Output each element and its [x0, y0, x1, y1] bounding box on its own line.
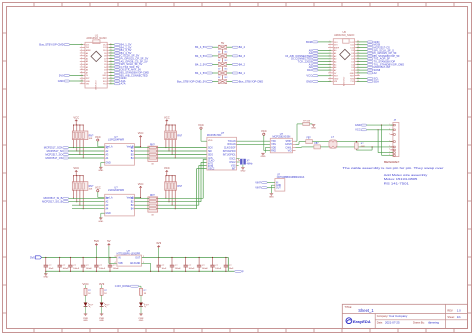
svg-text:OUT: OUT: [135, 258, 140, 260]
svg-text:INT0: INT0: [208, 166, 214, 168]
svg-text:D4: D4: [104, 67, 106, 69]
svg-text:2: 2: [143, 256, 144, 258]
svg-text:B4_2: B4_2: [239, 62, 246, 66]
svg-text:D8: D8: [104, 56, 106, 58]
svg-text:RN?: RN?: [89, 135, 94, 137]
svg-text:5V: 5V: [107, 239, 110, 243]
svg-text:RXD: RXD: [271, 150, 276, 152]
svg-text:Drawn By:: Drawn By:: [413, 322, 425, 325]
svg-text:D2: D2: [351, 70, 353, 72]
svg-text:100nF: 100nF: [202, 268, 209, 270]
svg-text:MCP2517_SI_B: MCP2517_SI_B: [43, 196, 62, 200]
svg-text:MCP2517_SCK: MCP2517_SCK: [44, 146, 63, 150]
svg-text:D13: D13: [86, 45, 89, 47]
svg-text:GND: GND: [102, 75, 107, 77]
svg-text:OSC2: OSC2: [208, 169, 215, 171]
svg-text:3V3: 3V3: [86, 47, 89, 49]
svg-text:GND: GND: [106, 213, 111, 215]
svg-text:VSS: VSS: [271, 144, 276, 146]
svg-text:VIN?: VIN?: [255, 180, 261, 184]
svg-text:D12: D12: [350, 42, 353, 44]
svg-text:PWR: PWR: [99, 318, 104, 320]
svg-text:EasyEDA: EasyEDA: [353, 319, 371, 324]
svg-text:D11: D11: [351, 45, 354, 47]
svg-text:Bus_STBY/OP-CMD_5V: Bus_STBY/OP-CMD_5V: [177, 80, 206, 84]
svg-text:VCC: VCC: [306, 74, 312, 78]
svg-text:Date:: Date:: [377, 322, 383, 325]
svg-text:INT1: INT1: [208, 163, 214, 165]
svg-text:Bus_STBY/OP-CMD: Bus_STBY/OP-CMD: [39, 43, 63, 47]
svg-text:D10: D10: [103, 50, 106, 52]
svg-text:VCC: VCC: [73, 166, 79, 170]
svg-text:5V0: 5V0: [30, 255, 35, 259]
svg-text:GND: GND: [306, 79, 312, 83]
svg-text:RN?: RN?: [177, 135, 182, 137]
svg-text:VCC: VCC: [261, 129, 267, 133]
svg-text:A2: A2: [374, 71, 378, 75]
svg-text:GND: GND: [106, 163, 111, 165]
svg-text:T.CK_22003: T.CK_22003: [297, 60, 312, 64]
svg-text:VDD: VDD: [271, 147, 276, 149]
svg-text:VDD: VDD: [208, 140, 213, 142]
svg-text:3V3: 3V3: [334, 45, 337, 47]
svg-text:OUT: OUT: [276, 188, 281, 190]
svg-text:The cable assembly is not pin: The cable assembly is not pin for pin. T…: [343, 166, 444, 170]
svg-text:10K: 10K: [89, 189, 93, 191]
svg-text:SDI: SDI: [208, 151, 212, 153]
svg-text:GND: GND: [43, 277, 48, 279]
svg-text:ARDUINO_NANO: ARDUINO_NANO: [86, 37, 106, 40]
svg-text:GND: GND: [99, 320, 104, 322]
svg-text:D8: D8: [351, 53, 353, 55]
svg-text:B4_4_5V: B4_4_5V: [195, 45, 206, 49]
svg-text:B4_2_5V: B4_2_5V: [195, 62, 206, 66]
svg-text:D7: D7: [351, 56, 353, 58]
svg-text:100nF: 100nF: [189, 268, 196, 270]
svg-text:BCM: BCM: [306, 40, 312, 44]
svg-text:100nF: 100nF: [63, 268, 70, 270]
svg-text:3V3: 3V3: [156, 241, 161, 245]
svg-text:SCK: SCK: [208, 148, 213, 150]
svg-text:BEWARE!!: BEWARE!!: [384, 160, 400, 164]
svg-text:60R: 60R: [361, 146, 365, 148]
svg-text:1.0: 1.0: [457, 309, 461, 313]
svg-text:HT7533BPU-LEN2PR: HT7533BPU-LEN2PR: [117, 252, 141, 255]
svg-text:100nF: 100nF: [86, 268, 93, 270]
svg-text:VCC: VCC: [164, 166, 170, 170]
svg-text:D13: D13: [334, 42, 337, 44]
svg-text:Add Molex wire assembly: Add Molex wire assembly: [384, 173, 428, 177]
svg-text:100nF: 100nF: [215, 268, 222, 270]
svg-text:B4_1_5V: B4_1_5V: [195, 71, 206, 75]
svg-text:GND: GND: [240, 170, 245, 172]
svg-text:3: 3: [114, 256, 115, 258]
svg-text:VCC: VCC: [138, 131, 144, 135]
svg-text:D7: D7: [104, 59, 106, 61]
svg-text:D11: D11: [103, 47, 106, 49]
svg-text:B4_3: B4_3: [239, 54, 246, 58]
svg-text:D5: D5: [351, 62, 353, 64]
svg-text:D10: D10: [350, 47, 353, 49]
svg-text:INT0/GPIO0: INT0/GPIO0: [223, 151, 237, 153]
svg-text:VCC: VCC: [138, 182, 144, 186]
svg-text:VCC: VCC: [73, 115, 79, 119]
svg-text:GND: GND: [261, 156, 266, 158]
svg-text:LSF0204PWR: LSF0204PWR: [108, 139, 124, 142]
svg-text:D12: D12: [103, 45, 106, 47]
svg-text:GND: GND: [98, 170, 103, 172]
svg-text:2021-07-25: 2021-07-25: [385, 321, 400, 325]
svg-text:RX0: RX0: [350, 78, 354, 80]
svg-text:Your Company: Your Company: [389, 314, 408, 318]
svg-text:VCC: VCC: [164, 115, 170, 119]
svg-text:OSC1: OSC1: [229, 159, 236, 161]
svg-text:ARDUINO_NANO: ARDUINO_NANO: [334, 34, 354, 37]
svg-text:MCP2562-E/SN: MCP2562-E/SN: [273, 136, 291, 139]
svg-text:Bus_STBY/OP-CMD: Bus_STBY/OP-CMD: [239, 80, 263, 84]
svg-text:D4: D4: [351, 64, 353, 66]
svg-text:5V: 5V: [221, 42, 224, 45]
svg-text:100nF: 100nF: [99, 268, 106, 270]
svg-text:VCC: VCC: [198, 123, 204, 127]
svg-text:A7A: A7A: [121, 82, 126, 86]
svg-text:INT1/GPIO1: INT1/GPIO1: [223, 154, 237, 156]
svg-text:GND: GND: [139, 320, 144, 322]
svg-text:PWR: PWR: [83, 318, 88, 320]
svg-text:100nF: 100nF: [175, 268, 182, 270]
svg-text:GND: GND: [311, 128, 316, 130]
svg-text:TITLE:: TITLE:: [345, 306, 353, 309]
svg-text:CLKO/SOF: CLKO/SOF: [224, 148, 236, 150]
svg-text:GND: GND: [58, 79, 64, 83]
svg-text:MCP2517_SO: MCP2517_SO: [45, 152, 62, 156]
svg-text:100nF: 100nF: [73, 268, 80, 270]
svg-text:D10: D10: [307, 68, 312, 72]
svg-text:D6: D6: [351, 59, 353, 61]
svg-text:PWR: PWR: [139, 318, 144, 320]
svg-text:TX_STANDBY/OP: TX_STANDBY/OP: [374, 60, 396, 64]
svg-text:10uF: 10uF: [229, 268, 234, 270]
svg-text:Molex 15134-0805: Molex 15134-0805: [384, 177, 418, 181]
svg-text:GND: GND: [276, 185, 281, 187]
svg-text:VIN?: VIN?: [255, 186, 261, 190]
svg-text:nCS: nCS: [208, 158, 213, 160]
svg-text:R? 10K: R? 10K: [303, 120, 311, 122]
svg-text:tfjenning: tfjenning: [428, 321, 439, 325]
svg-text:VSS: VSS: [231, 165, 236, 167]
svg-text:B4_4: B4_4: [239, 45, 246, 49]
svg-text:RS 141-7501: RS 141-7501: [384, 181, 410, 185]
svg-text:OSC2: OSC2: [229, 162, 236, 164]
svg-text:GND: GND: [355, 123, 361, 127]
svg-text:MCP2517_CS: MCP2517_CS: [46, 156, 63, 160]
svg-text:5V0: 5V0: [59, 73, 64, 77]
svg-text:1/1: 1/1: [457, 315, 461, 319]
svg-text:VCC: VCC: [95, 186, 101, 190]
svg-text:10K: 10K: [89, 138, 93, 140]
svg-text:100nF: 100nF: [113, 268, 120, 270]
svg-text:SDO: SDO: [208, 154, 213, 156]
svg-text:RX0: RX0: [103, 81, 107, 83]
svg-text:D3: D3: [104, 70, 106, 72]
svg-text:D5: D5: [104, 64, 106, 66]
svg-text:TX1: TX1: [350, 81, 353, 83]
svg-text:VCC: VCC: [82, 282, 89, 286]
svg-text:10uF: 10uF: [49, 268, 54, 270]
svg-text:REV:: REV:: [447, 310, 453, 313]
svg-text:Sheet_1: Sheet_1: [358, 308, 374, 313]
svg-text:TX1: TX1: [103, 84, 106, 86]
svg-text:Company:: Company:: [377, 315, 389, 318]
svg-text:Sheet:: Sheet:: [447, 316, 455, 319]
svg-text:GND: GND: [269, 196, 274, 198]
svg-text:STBY: STBY: [286, 141, 293, 143]
svg-text:LSF0204PWR: LSF0204PWR: [108, 189, 124, 192]
svg-text:IN: IN: [276, 182, 279, 184]
svg-text:D9: D9: [104, 53, 106, 55]
svg-text:GND: GND: [98, 221, 103, 223]
svg-text:C.RX_DONE: C.RX_DONE: [115, 284, 130, 288]
svg-text:MCP2517FD: MCP2517FD: [207, 134, 222, 137]
svg-text:TXD: TXD: [271, 141, 276, 143]
svg-text:VIO: VIO: [288, 150, 292, 152]
svg-text:3V3: 3V3: [99, 282, 105, 286]
svg-text:B4_1: B4_1: [239, 71, 246, 75]
svg-text:D6: D6: [104, 61, 106, 63]
svg-text:B4_3_5V: B4_3_5V: [195, 54, 206, 58]
svg-text:GND: GND: [83, 320, 88, 322]
svg-text:MCP2517_SI: MCP2517_SI: [47, 149, 63, 153]
svg-text:GND: GND: [334, 78, 339, 80]
svg-text:INT: INT: [232, 168, 236, 170]
svg-text:IN: IN: [118, 258, 121, 260]
svg-text:MCP2517_SO_B: MCP2517_SO_B: [42, 200, 62, 204]
svg-text:4MHz: 4MHz: [247, 163, 254, 165]
svg-text:VCC: VCC: [95, 135, 101, 139]
svg-text:4: 4: [114, 262, 115, 264]
svg-text:SDA: SDA: [374, 79, 380, 83]
svg-text:GND: GND: [350, 73, 355, 75]
svg-text:D3: D3: [351, 67, 353, 69]
svg-text:10uF: 10uF: [162, 268, 167, 270]
svg-text:GND: GND: [86, 81, 91, 83]
svg-text:MCP2517-CS: MCP2517-CS: [374, 45, 391, 49]
svg-text:5V0: 5V0: [94, 239, 99, 243]
svg-text:RN?: RN?: [89, 186, 94, 188]
svg-text:CLKO: CLKO: [208, 161, 215, 163]
svg-text:VCC: VCC: [355, 128, 361, 132]
svg-text:RN?: RN?: [177, 186, 182, 188]
svg-text:D2: D2: [104, 72, 106, 74]
svg-text:D9: D9: [351, 50, 353, 52]
